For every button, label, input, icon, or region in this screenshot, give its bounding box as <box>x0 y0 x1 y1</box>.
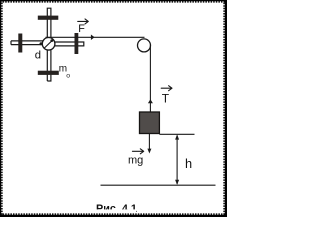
svg-text:o: o <box>66 73 70 80</box>
svg-text:mg: mg <box>128 155 143 167</box>
svg-text:F: F <box>78 23 85 35</box>
svg-text:d: d <box>35 50 41 62</box>
svg-text:h: h <box>185 156 192 171</box>
svg-text:T: T <box>162 91 170 105</box>
